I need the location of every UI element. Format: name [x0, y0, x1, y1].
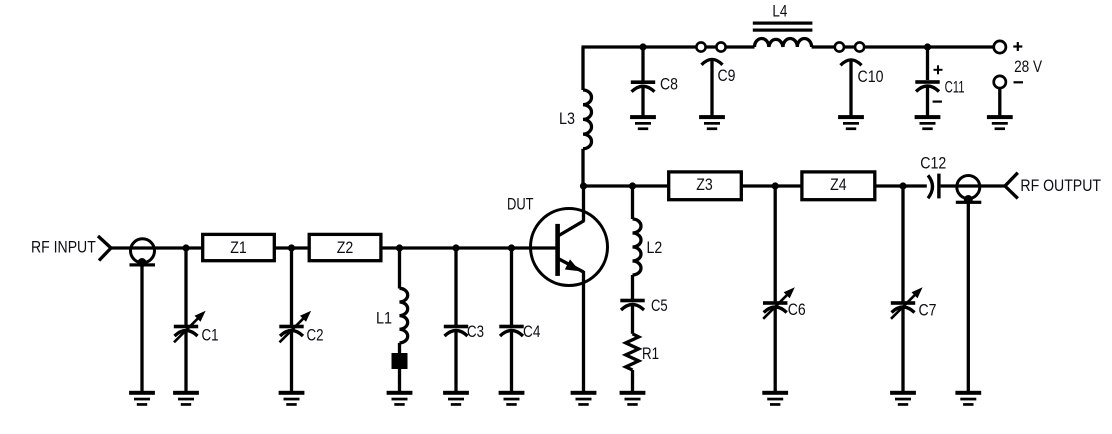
- inductor L4: [753, 1, 813, 47]
- node C6 junction: [772, 182, 779, 189]
- inductor L2: [633, 219, 642, 275]
- svg-text:C12: C12: [920, 154, 946, 173]
- svg-text:C6: C6: [788, 300, 806, 319]
- ground minus terminal: [987, 115, 1013, 130]
- ground C4: [499, 391, 525, 406]
- terminal +28V: [994, 41, 1023, 53]
- svg-text:DUT: DUT: [507, 194, 534, 213]
- ground emitter: [571, 391, 597, 406]
- wire C6 upper: [774, 186, 777, 302]
- electrolytic capacitor C11: [915, 65, 964, 101]
- wire L3 upper: [581, 47, 584, 90]
- node C1 junction: [182, 244, 189, 251]
- capacitor C5: [620, 299, 644, 310]
- wire input line Z2 to base: [381, 246, 557, 249]
- node C7 junction: [899, 182, 906, 189]
- svg-text:Z2: Z2: [337, 238, 354, 257]
- ground C1: [173, 391, 199, 406]
- input chevron connector: [98, 236, 111, 261]
- wire C9 to ground: [710, 60, 713, 117]
- wire Z4 to C12: [875, 184, 927, 187]
- wire output connector ground drop: [967, 202, 970, 391]
- capacitor C3: [444, 325, 468, 336]
- ground C2: [279, 391, 305, 406]
- wire C3 lower: [454, 331, 457, 391]
- wire C1 lower: [184, 331, 187, 391]
- svg-text:Z3: Z3: [696, 175, 713, 194]
- wire C4 lower: [510, 331, 513, 391]
- wire C6 lower: [774, 308, 777, 392]
- wire C3 upper: [454, 248, 457, 325]
- wire C5 to R1: [631, 306, 634, 334]
- wire bead to ground: [398, 369, 401, 391]
- output coax connector J2: [956, 176, 982, 205]
- node C4 junction: [508, 244, 515, 251]
- wire connector ground drop: [140, 265, 143, 391]
- svg-text:C1: C1: [202, 325, 219, 344]
- svg-text:L1: L1: [376, 309, 392, 328]
- node L2 junction: [629, 182, 636, 189]
- capacitor C7: [891, 301, 915, 312]
- svg-text:C7: C7: [919, 301, 937, 320]
- ground input connector: [129, 391, 155, 406]
- wire L2 upper: [631, 186, 634, 219]
- wire L1 upper: [398, 248, 401, 289]
- capacitor C6: [763, 301, 787, 312]
- svg-text:C3: C3: [467, 322, 484, 341]
- capacitor C2: [279, 325, 303, 336]
- ground C8: [630, 115, 656, 130]
- svg-text:C2: C2: [307, 325, 324, 344]
- wire C2 upper: [290, 248, 293, 325]
- ground L1: [387, 391, 413, 406]
- capacitor C12: [920, 154, 946, 199]
- resistor R1: [626, 334, 639, 370]
- wire L2 to C5: [631, 275, 634, 299]
- svg-text:Z1: Z1: [230, 238, 247, 257]
- transmission line Z1: [203, 234, 275, 260]
- svg-text:C8: C8: [660, 75, 678, 94]
- wire minus terminal to ground: [998, 88, 1001, 116]
- wire emitter vertical: [582, 271, 585, 391]
- wire C10 to ground: [849, 60, 852, 116]
- transistor DUT: [507, 194, 608, 285]
- wire top rail right: [812, 45, 995, 48]
- input coax connector J1: [130, 239, 156, 267]
- ground R1: [620, 391, 646, 406]
- wire L1 to bead: [398, 343, 401, 353]
- svg-text:L4: L4: [772, 1, 787, 20]
- wire output line left: [584, 184, 669, 187]
- wire input line left: [111, 246, 202, 249]
- wire C2 lower: [290, 331, 293, 391]
- wire C7 lower: [901, 308, 904, 392]
- node C8 junction: [639, 43, 646, 50]
- wire C11 lower: [926, 87, 929, 116]
- feedthrough capacitor C10: [835, 42, 884, 85]
- terminal minus: [994, 76, 1023, 88]
- wire top rail left: [582, 45, 755, 48]
- ground C3: [443, 391, 469, 406]
- inductor L3: [583, 90, 592, 149]
- svg-text:28 V: 28 V: [1014, 57, 1043, 76]
- svg-text:RF INPUT: RF INPUT: [31, 238, 96, 257]
- wire input line Z1-Z2: [275, 246, 310, 249]
- capacitor C8: [631, 80, 655, 91]
- svg-text:C10: C10: [858, 67, 884, 86]
- svg-text:C5: C5: [651, 296, 668, 315]
- wire C1 upper: [184, 248, 187, 325]
- wire L3 lower: [581, 149, 584, 186]
- ground C11: [915, 115, 941, 130]
- feedthrough capacitor C9: [696, 42, 735, 85]
- svg-text:R1: R1: [642, 344, 659, 363]
- ground C9: [699, 115, 725, 130]
- svg-text:C11: C11: [945, 78, 965, 97]
- ground output connector: [955, 391, 981, 406]
- inductor L1: [400, 288, 408, 343]
- wire C11 upper: [926, 47, 929, 80]
- wire C8 upper: [641, 47, 644, 81]
- node C3 junction: [452, 244, 459, 251]
- node L1 junction: [396, 244, 403, 251]
- svg-text:C9: C9: [718, 66, 736, 85]
- svg-text:L2: L2: [647, 238, 663, 257]
- node C11 junction: [924, 43, 931, 50]
- wire Z3 to Z4: [742, 184, 802, 187]
- output chevron connector: [1005, 173, 1018, 199]
- capacitor C1: [174, 325, 198, 336]
- svg-text:Z4: Z4: [830, 175, 847, 194]
- transmission line Z3: [669, 172, 742, 200]
- node C2 junction: [288, 244, 295, 251]
- ground C6: [762, 391, 788, 406]
- ground C10: [838, 115, 864, 130]
- svg-text:RF OUTPUT: RF OUTPUT: [1020, 176, 1101, 195]
- ground C7: [890, 391, 916, 406]
- wire C8 lower: [641, 87, 644, 116]
- transmission line Z2: [309, 234, 381, 260]
- wire C12 to chevron: [941, 184, 1005, 187]
- svg-text:L3: L3: [559, 109, 575, 128]
- wire collector vertical: [582, 186, 585, 222]
- wire C4 upper: [510, 248, 513, 325]
- transmission line Z4: [802, 172, 875, 200]
- capacitor C4: [499, 325, 523, 336]
- wire R1 to ground: [631, 370, 634, 391]
- svg-text:C4: C4: [523, 322, 540, 341]
- ferrite bead on L1: [392, 353, 408, 369]
- wire C7 upper: [901, 186, 904, 302]
- node collector junction: [580, 182, 587, 189]
